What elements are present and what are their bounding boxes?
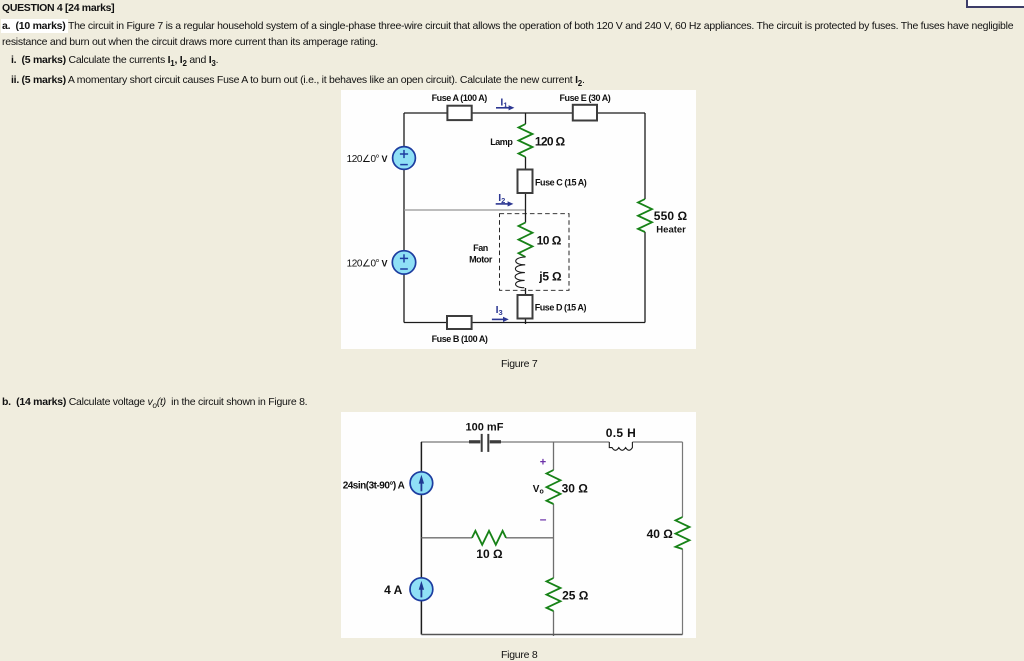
resistor 40ohm [676,517,690,549]
svg-text:0.5 H: 0.5 H [606,426,636,440]
svg-text:+: + [540,457,546,469]
current source bottom [410,578,433,601]
wire left rail [403,113,405,323]
inductor j5 [515,257,525,288]
fuse E [573,105,597,121]
svg-text:550 Ω: 550 Ω [654,209,688,223]
wire middle horizontal [421,537,472,539]
highlight behind a. (10 marks) [1,19,68,33]
svg-text:4 A: 4 A [384,583,403,597]
svg-text:40 Ω: 40 Ω [647,527,674,541]
wire top (fig7) [404,112,645,114]
capacitor 100mF [469,440,480,443]
svg-text:–: – [540,512,547,526]
title [2,2,114,14]
figure 7 white box [341,90,696,349]
svg-text:Motor: Motor [469,254,493,264]
voltage source top [393,147,416,170]
resistor 10ohm (fan) [519,223,533,258]
resistor 120ohm (lamp) [519,124,533,157]
wire left rail [420,442,422,635]
svg-text:100 mF: 100 mF [466,421,504,433]
fuse B [447,316,472,329]
resistor 10ohm horizontal [472,531,506,545]
voltage source bottom [392,251,415,274]
dashed box fan motor [500,214,570,291]
svg-text:10 Ω: 10 Ω [537,234,562,248]
arrow I3 [492,318,504,320]
svg-text:I3: I3 [496,304,503,317]
svg-text:Vo: Vo [533,484,544,496]
wire center branch [525,113,527,124]
corner box top-right [966,0,1024,8]
resistor 30ohm [547,470,561,504]
caption figure 8 (cut off) [501,649,537,661]
fuse D [518,295,533,319]
wire top (fig8) [421,441,470,443]
svg-text:25 Ω: 25 Ω [562,588,589,602]
wire right rail [682,442,684,517]
wire mid branch [553,442,555,470]
svg-text:Lamp: Lamp [490,137,513,147]
svg-text:Fuse A (100 A): Fuse A (100 A) [432,93,488,103]
svg-text:Fuse B (100 A): Fuse B (100 A) [432,334,488,344]
svg-text:Fuse C (15 A): Fuse C (15 A) [535,178,587,188]
wire bottom [421,634,682,636]
caption figure 7 [501,358,537,370]
svg-text:Fuse E (30 A): Fuse E (30 A) [560,93,611,103]
svg-text:Fan: Fan [473,243,488,253]
item ii [11,74,19,86]
svg-text:Heater: Heater [656,225,686,236]
figure 8 white box [341,412,696,638]
svg-text:30 Ω: 30 Ω [562,482,589,496]
resistor 550ohm (heater) [638,199,652,232]
arrow I1 [496,107,509,109]
svg-text:120∠0° V: 120∠0° V [347,154,388,165]
item b [2,396,307,410]
fuse A [447,106,471,120]
current source top [410,472,433,495]
fuse C [518,170,533,194]
svg-text:Fuse D (15 A): Fuse D (15 A) [535,302,587,312]
svg-text:10 Ω: 10 Ω [476,547,503,561]
svg-text:120 Ω: 120 Ω [535,135,566,149]
wire right rail [644,113,646,199]
svg-text:120∠0° V: 120∠0° V [347,259,388,270]
item i [11,54,16,66]
inductor 0.5H [609,442,632,450]
svg-text:24sin(3t-90°) A: 24sin(3t-90°) A [343,480,405,491]
svg-text:I2: I2 [498,192,505,205]
svg-text:j5 Ω: j5 Ω [538,270,562,284]
wire bottom [404,322,645,324]
paragraph a line 2 [2,36,378,48]
paragraph a line 1 [2,20,1013,32]
svg-text:I1: I1 [500,97,507,110]
arrow I2 [496,203,508,205]
wire middle (gray) [404,209,526,211]
resistor 25ohm [547,578,561,611]
